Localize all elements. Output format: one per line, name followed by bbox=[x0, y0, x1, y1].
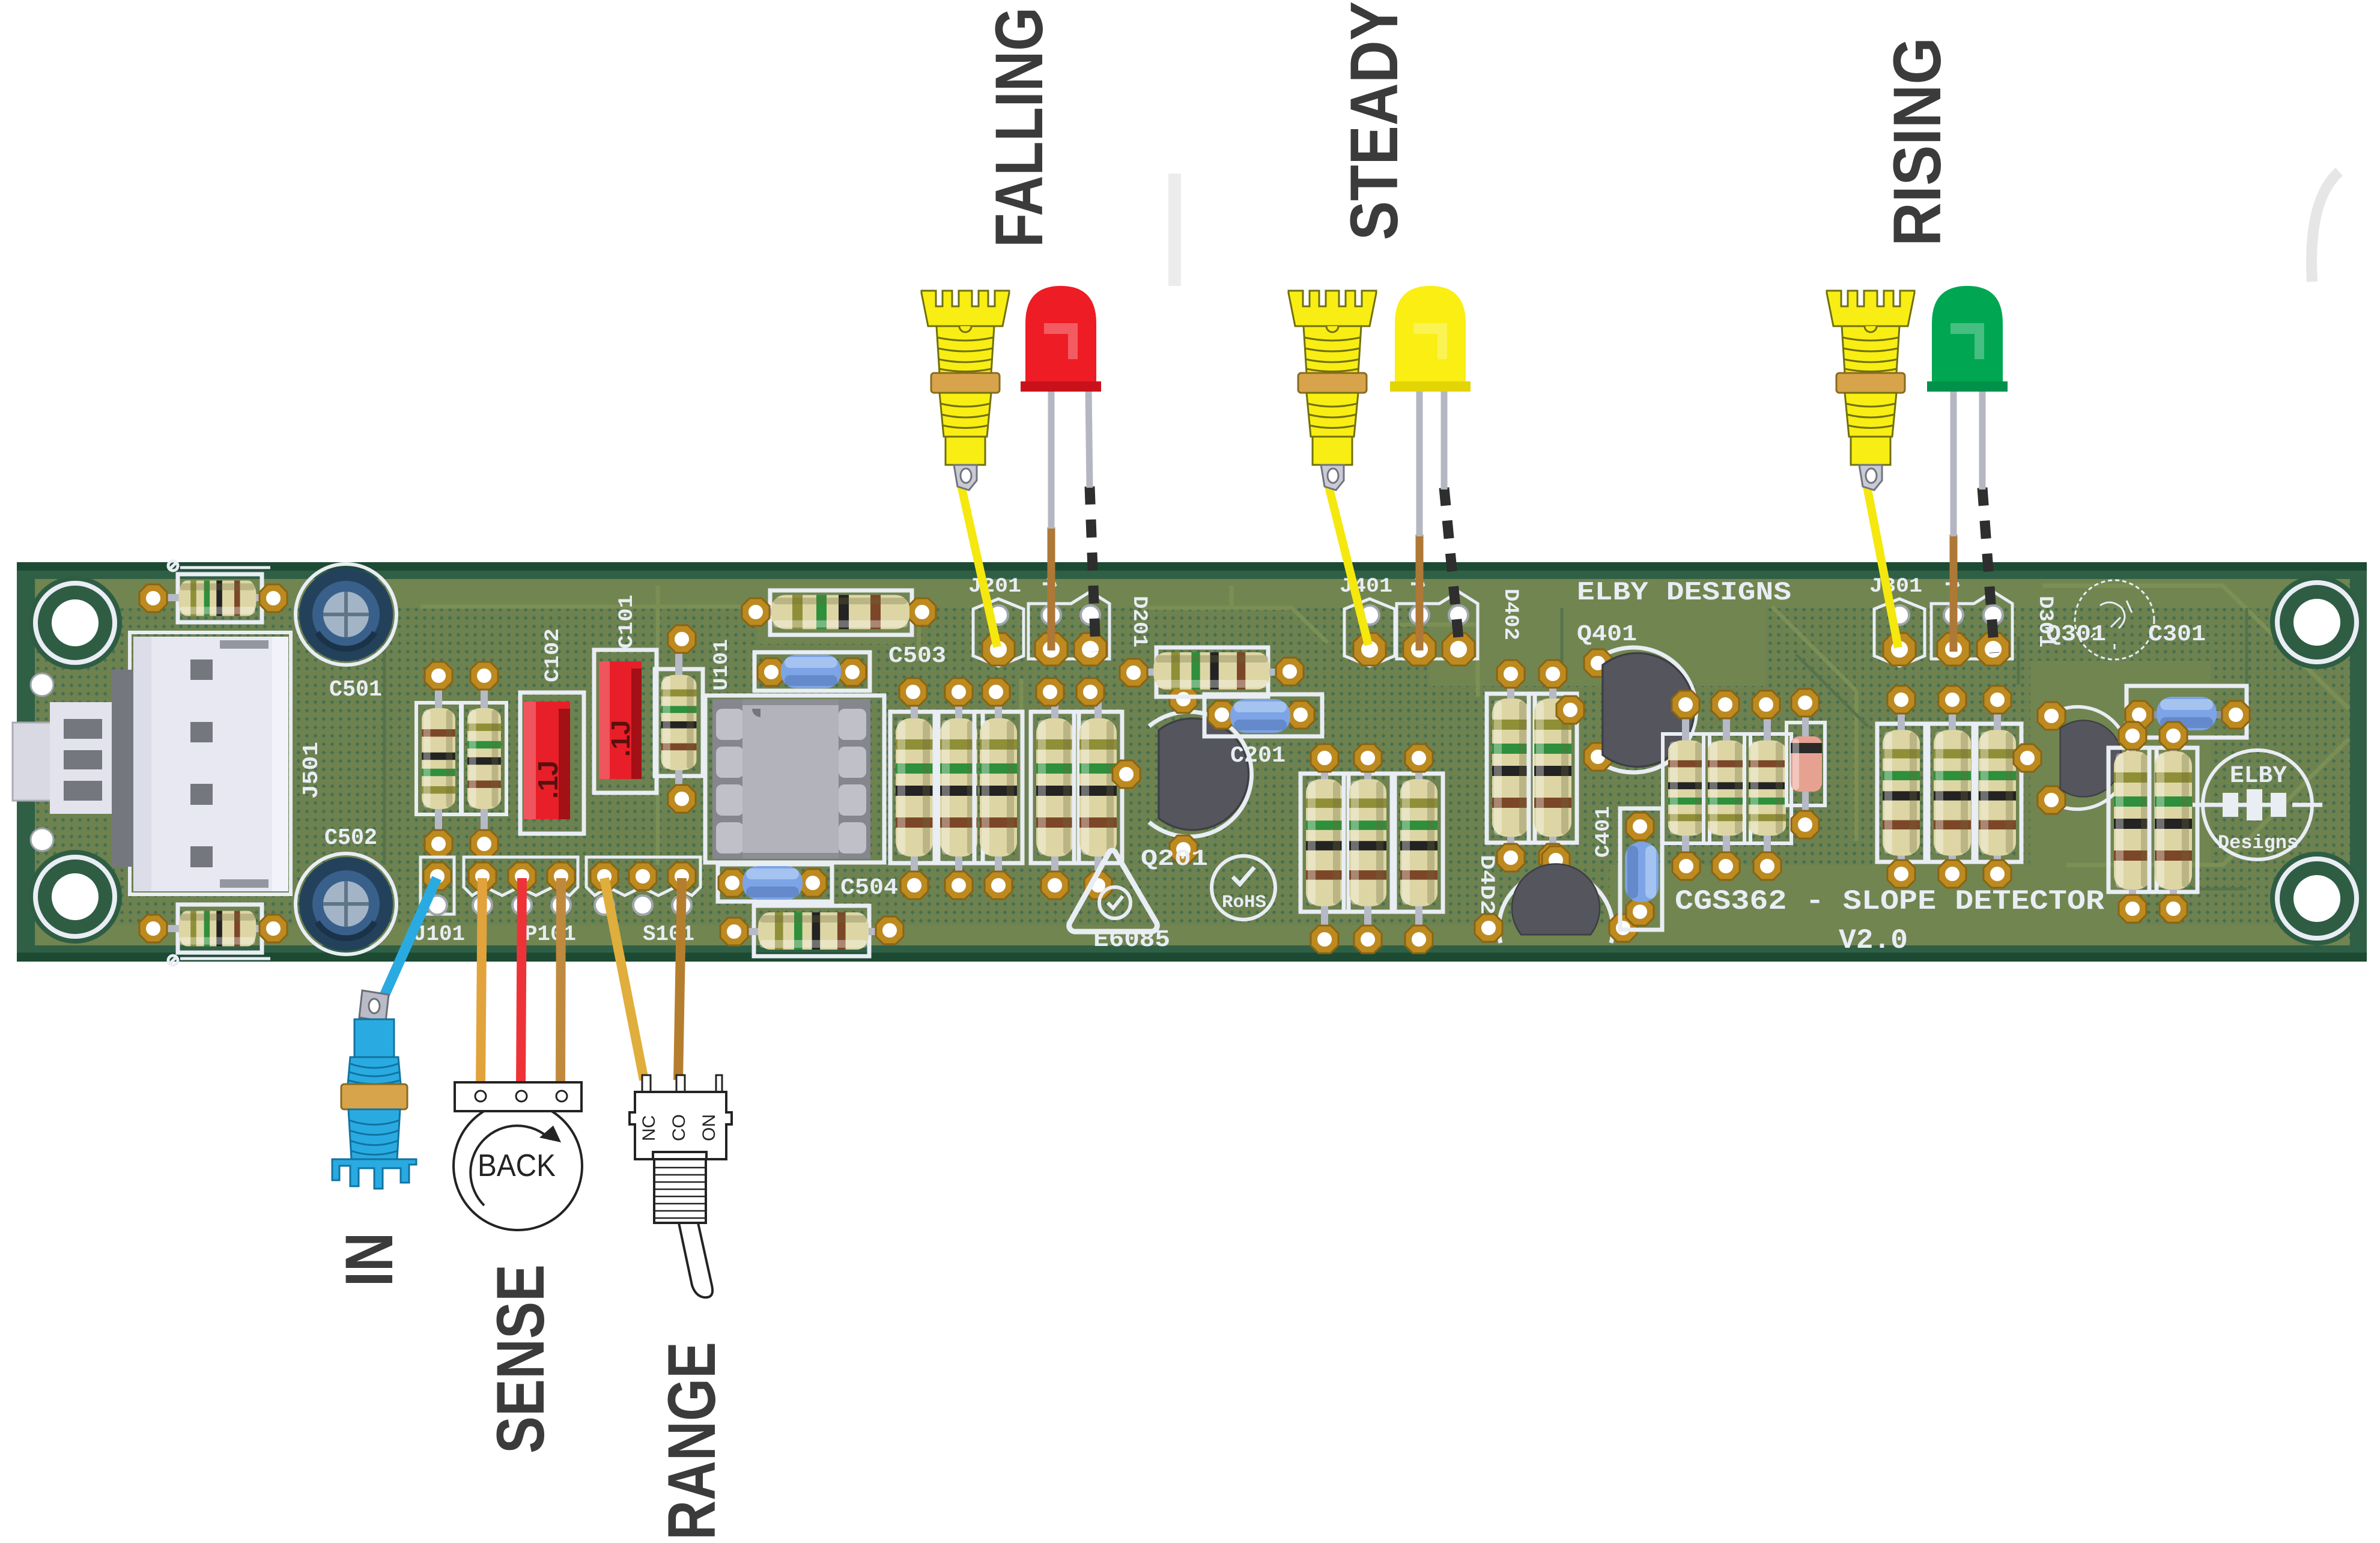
pads P101 bbox=[464, 857, 578, 915]
pad J101 with wire hole bbox=[420, 857, 454, 915]
svg-text:C101: C101 bbox=[616, 595, 639, 649]
jack J301 RISING bbox=[1827, 291, 1914, 490]
resistor R403 bbox=[1301, 744, 1349, 953]
wire P101 pin2 red bbox=[521, 878, 522, 1086]
jack pad J401 bbox=[1344, 599, 1395, 666]
resistor R406 bbox=[1663, 691, 1710, 880]
pads S101 bbox=[586, 857, 700, 915]
decorative grey arc bbox=[2312, 172, 2339, 282]
resistor R408 bbox=[1744, 691, 1791, 880]
wire P101 pin1 orange bbox=[481, 878, 482, 1086]
resistor R203 bbox=[974, 678, 1022, 899]
ELBY Designs logo bbox=[2193, 750, 2322, 859]
svg-text:Q401: Q401 bbox=[1577, 622, 1637, 647]
resistor R405 bbox=[1395, 744, 1443, 953]
jack pad J201 bbox=[973, 599, 1024, 666]
LED D301 green bbox=[1927, 286, 2008, 536]
svg-text:V2.0: V2.0 bbox=[1839, 925, 1908, 956]
resistor R305 bbox=[2149, 722, 2197, 923]
svg-text:CGS362 - SLOPE DETECTOR: CGS362 - SLOPE DETECTOR bbox=[1675, 886, 2104, 917]
mounting hole bottom-right bbox=[2270, 852, 2364, 945]
transistor Q402 bbox=[1475, 846, 1637, 943]
resistor R303 bbox=[1973, 686, 2021, 888]
wire LED D401 anode bbox=[1416, 535, 1424, 650]
silkscreen line R502 bbox=[168, 956, 270, 965]
svg-text:J301: J301 bbox=[1869, 575, 1922, 598]
svg-text:BACK: BACK bbox=[478, 1148, 556, 1183]
board light bands and trace areas bbox=[36, 579, 2349, 945]
LED pads D201 bbox=[1028, 577, 1110, 665]
svg-text:C201: C201 bbox=[1230, 743, 1286, 769]
svg-text:C503: C503 bbox=[888, 643, 946, 669]
svg-text:NC: NC bbox=[639, 1115, 659, 1141]
regulatory C-tick mark bbox=[1069, 850, 1158, 932]
resistor R206 horizontal bbox=[1120, 647, 1304, 697]
svg-text:J501: J501 bbox=[299, 742, 324, 799]
capacitor C504 bbox=[718, 864, 832, 902]
wire LED D401 cathode dashed bbox=[1444, 488, 1460, 652]
potentiometer P101 SENSE bbox=[454, 1082, 582, 1230]
resistor R205 bbox=[1074, 678, 1122, 899]
LED pads D301 bbox=[1931, 577, 2012, 665]
resistor R402 bbox=[1529, 660, 1577, 872]
small hole lower-left bbox=[31, 828, 53, 851]
svg-text:E6085: E6085 bbox=[1093, 927, 1170, 954]
decorative grey bar bbox=[1168, 174, 1181, 286]
svg-text:U101: U101 bbox=[711, 639, 733, 691]
mounting hole top-left bbox=[28, 576, 122, 670]
op-amp U101 bbox=[705, 696, 884, 862]
jack J401 STEADY bbox=[1289, 291, 1376, 490]
resistor R401 bbox=[1487, 660, 1535, 872]
svg-text:C502: C502 bbox=[324, 825, 377, 851]
svg-text:Designs: Designs bbox=[2218, 832, 2298, 854]
wire LED D301 cathode dashed bbox=[1982, 488, 1994, 653]
wire yellow jack J201 to board bbox=[961, 485, 997, 647]
svg-text:Q301: Q301 bbox=[2046, 622, 2106, 647]
capacitor C501 bbox=[296, 564, 396, 665]
resistor R502 bbox=[139, 905, 287, 953]
transistor Q401 bbox=[1556, 647, 1696, 772]
resistor R102 bbox=[461, 662, 506, 858]
svg-text:CO: CO bbox=[669, 1114, 689, 1141]
small hole upper-left bbox=[31, 673, 53, 696]
jack J201 FALLING bbox=[921, 291, 1009, 490]
resistor R103 bbox=[655, 625, 703, 813]
jack J101 IN blue bbox=[332, 990, 416, 1189]
RoHS mark bbox=[1212, 856, 1275, 920]
wire S101 pin1 gold bbox=[604, 878, 644, 1080]
svg-text:S101: S101 bbox=[643, 922, 694, 947]
wire yellow jack J301 to board bbox=[1867, 487, 1898, 647]
svg-text:RANGE: RANGE bbox=[654, 1342, 729, 1540]
transistor Q201 bbox=[1113, 685, 1251, 863]
svg-text:J201: J201 bbox=[968, 575, 1021, 598]
capacitor C101 bbox=[594, 650, 657, 793]
svg-text:D4D2: D4D2 bbox=[1475, 855, 1498, 915]
svg-text:D402: D402 bbox=[1499, 589, 1522, 640]
silkscreen line R501 bbox=[168, 561, 270, 571]
svg-text:.1J: .1J bbox=[606, 720, 636, 757]
svg-text:SENSE: SENSE bbox=[483, 1264, 558, 1454]
capacitor C201 bbox=[1204, 694, 1322, 736]
LED pads D401 bbox=[1397, 577, 1478, 665]
wire S101 pin3 brown bbox=[678, 878, 682, 1080]
capacitor C401 bbox=[1620, 808, 1662, 930]
svg-text:IN: IN bbox=[332, 1232, 407, 1287]
resistor R304 bbox=[2108, 722, 2157, 923]
resistor R201 bbox=[890, 678, 938, 899]
svg-text:C501: C501 bbox=[329, 677, 382, 703]
wire blue J101 to IN jack bbox=[377, 878, 437, 1011]
svg-text:FALLING: FALLING bbox=[982, 7, 1057, 247]
resistor R407 bbox=[1704, 691, 1750, 880]
wire P101 pin3 tan bbox=[560, 878, 561, 1086]
resistor R202 bbox=[935, 678, 983, 899]
mounting hole top-right bbox=[2270, 575, 2364, 669]
svg-text:C504: C504 bbox=[840, 875, 898, 901]
svg-text:.1J: .1J bbox=[532, 760, 563, 799]
svg-text:P101: P101 bbox=[524, 922, 576, 947]
wire LED D201 cathode dashed bbox=[1090, 487, 1096, 652]
resistor R101 bbox=[416, 662, 462, 858]
svg-text:C301: C301 bbox=[2148, 622, 2206, 647]
connector J501 bbox=[13, 632, 291, 894]
resistor R301 bbox=[1877, 686, 1925, 888]
svg-text:ELBY: ELBY bbox=[2230, 763, 2287, 790]
svg-text:C102: C102 bbox=[542, 628, 565, 682]
capacitor C503 bbox=[754, 652, 870, 691]
mounting hole bottom-left bbox=[28, 850, 122, 944]
svg-text:ON: ON bbox=[699, 1114, 719, 1141]
target mark bbox=[2075, 580, 2154, 659]
resistor R302 bbox=[1928, 686, 1976, 888]
LED D201 red bbox=[1021, 286, 1101, 529]
svg-text:D201: D201 bbox=[1128, 596, 1150, 647]
resistor R105 below U101 bbox=[720, 906, 903, 956]
jack pad J301 bbox=[1874, 599, 1925, 666]
resistor R501 bbox=[139, 574, 287, 622]
svg-text:RoHS: RoHS bbox=[1222, 893, 1266, 913]
svg-text:ELBY DESIGNS: ELBY DESIGNS bbox=[1577, 578, 1791, 608]
trace lines bbox=[420, 586, 2349, 865]
resistor R104 above U101 bbox=[742, 590, 936, 635]
resistor R404 bbox=[1344, 744, 1392, 953]
wire LED D301 anode bbox=[1950, 535, 1958, 652]
svg-text:Q201: Q201 bbox=[1141, 846, 1208, 872]
svg-text:J401: J401 bbox=[1340, 575, 1392, 598]
wire LED D201 anode bbox=[1048, 527, 1055, 650]
capacitor C102 bbox=[520, 693, 584, 834]
svg-text:STEADY: STEADY bbox=[1337, 1, 1412, 240]
LED D401 yellow bbox=[1390, 286, 1471, 536]
diode D401 bbox=[1787, 689, 1825, 838]
svg-text:C401: C401 bbox=[1592, 806, 1615, 858]
capacitor C301 bbox=[2125, 686, 2250, 738]
capacitor C502 bbox=[296, 853, 396, 954]
svg-text:RISING: RISING bbox=[1880, 37, 1955, 246]
resistor R204 bbox=[1031, 678, 1079, 899]
wire yellow jack J401 to board bbox=[1329, 487, 1368, 645]
toggle switch S101 RANGE bbox=[630, 1075, 732, 1297]
PCB board CGS362 bbox=[17, 562, 2367, 962]
transistor Q301 bbox=[2014, 702, 2129, 814]
